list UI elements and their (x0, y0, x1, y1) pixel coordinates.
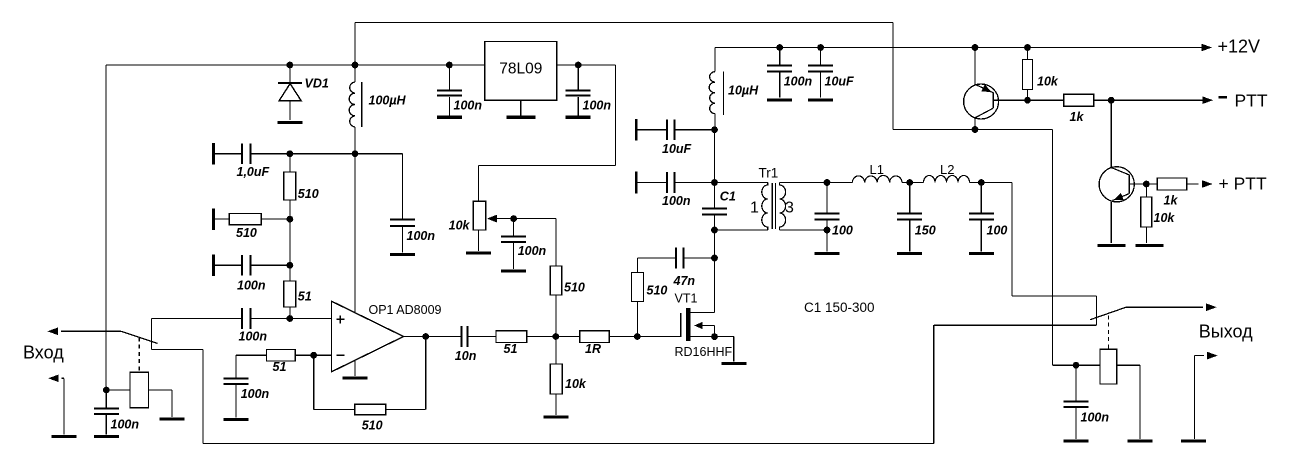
resistor 510 vertical (row1-row2) (289, 154, 291, 172)
ground relay K2 (1128, 439, 1153, 442)
node gate (634, 333, 641, 340)
svg-text:510: 510 (298, 187, 319, 201)
transistor Q1 (PNP) (974, 48, 976, 85)
svg-text:100n: 100n (583, 99, 612, 113)
node input cap of 78L09 (446, 62, 453, 69)
svg-text:510: 510 (362, 419, 383, 433)
ground pin of 78L09 (520, 100, 522, 115)
capacitor 100n (row4, +input) (151, 318, 242, 320)
capacitor 100n (drain supply) (779, 48, 781, 65)
node feedback junction (310, 352, 317, 359)
ground below 10k divider (544, 415, 569, 418)
terminal stub row2 (212, 208, 215, 230)
svg-text:L1: L1 (870, 162, 884, 177)
svg-text:150: 150 (915, 224, 936, 238)
wire output arrow line (1126, 306, 1203, 308)
svg-text:100: 100 (987, 224, 1008, 238)
svg-text:510: 510 (564, 281, 585, 295)
wire +12V rail (y=47.5) (715, 47, 1203, 49)
svg-text:51: 51 (504, 342, 518, 356)
relay switch blade (input) (121, 331, 157, 343)
transformer Tr1 primary winding (715, 182, 768, 184)
svg-text:100n: 100n (518, 244, 547, 258)
svg-text:51: 51 (298, 290, 312, 304)
node Q1 emitter (972, 44, 979, 51)
svg-text:100n: 100n (662, 194, 691, 208)
node row1 divider (287, 150, 294, 157)
resistor 51 (driver) (496, 331, 527, 343)
svg-text:510: 510 (647, 284, 668, 298)
wire -PTT line (1094, 99, 1203, 101)
wire top rail (y=22.5) from 100uH node to Q1 collector drop (355, 22, 893, 24)
input arrow to connector (47, 328, 58, 336)
wire bottom loop (203, 443, 934, 445)
capacitor 100n after 78L09 (577, 65, 579, 89)
resistor 10k (Q1 base pullup) (1027, 48, 1029, 60)
wire row2-row3 (289, 219, 291, 265)
node Tr1 primary bottom (711, 227, 718, 234)
svg-text:+ PTT: + PTT (1219, 174, 1267, 194)
wire 9V feed down to bias pot (615, 65, 617, 166)
inductor 100uH (354, 65, 356, 82)
transformer Tr1 secondary winding (780, 183, 786, 231)
svg-text:L2: L2 (940, 162, 954, 177)
capacitor 10n coupling (461, 326, 463, 347)
capacitor 47n feedback (675, 248, 677, 269)
node VD1 top (287, 62, 294, 69)
svg-text:RD16HHF: RD16HHF (675, 345, 733, 359)
svg-text:OP1 AD8009: OP1 AD8009 (369, 303, 442, 317)
ground below LPF cap2 (897, 252, 922, 255)
svg-text:3: 3 (785, 200, 794, 217)
wire 100n to node (675, 182, 715, 184)
wire +12V-in rail (y=65) (106, 64, 485, 66)
input shield stub arrow (48, 375, 59, 383)
wire 10uF to node (675, 129, 715, 131)
capacitor 100 (LPF 1) (826, 183, 828, 213)
capacitor 150 (LPF 2) (909, 183, 911, 213)
node LPF cap1 top (824, 179, 831, 186)
inductor 10uH (714, 48, 716, 72)
svg-text:100n: 100n (237, 279, 266, 293)
wire relay K1 coil right lead to ground (149, 389, 173, 391)
svg-text:100: 100 (832, 224, 853, 238)
svg-text:1k: 1k (1164, 194, 1179, 208)
wire wiper to gate 510 resistor top (555, 219, 557, 266)
node relay K1 coil / 100n (103, 387, 110, 394)
resistor 510 horizontal (row2) (213, 218, 229, 220)
ground below LPF cap1 (815, 252, 840, 255)
resistor 1k (+PTT) (1157, 178, 1187, 190)
node -PTT / Q2 collector (1108, 97, 1115, 104)
arrow -PTT (1203, 96, 1214, 104)
node drain supply cap 100n (776, 44, 783, 51)
ground below drain supply 100n (767, 98, 792, 101)
resistor 510 vertical (to wiper) (555, 295, 557, 337)
relay switch blade (output) (1090, 307, 1126, 320)
wire 10n to 51 (468, 336, 497, 338)
ground below output cap (566, 116, 591, 119)
resistor 1R (580, 331, 610, 343)
ground input shield stub (52, 435, 77, 438)
svg-text:VD1: VD1 (305, 77, 329, 91)
capacitor 100n (input relay) (105, 390, 107, 407)
wire Q1 base row (993, 99, 1064, 101)
node relay K2 coil / 100n (1073, 362, 1080, 369)
wire 1R to gate (609, 336, 680, 338)
ground below VD1 (277, 121, 302, 124)
node LPF cap2 top (906, 179, 913, 186)
inductor L1 (827, 182, 852, 184)
label minus PTT (1219, 96, 1228, 99)
node row3 (287, 262, 294, 269)
op-amp OP1 triangle (332, 301, 404, 372)
node secondary return (824, 227, 831, 234)
pot wiper arrow (497, 218, 556, 220)
arrow +PTT (1202, 180, 1213, 188)
dashed actuator link (output relay) (1107, 316, 1109, 350)
capacitor 100n (-input to gnd) (235, 355, 237, 377)
capacitor 10uF coupling (636, 129, 667, 131)
arrow output (1206, 303, 1217, 311)
wire relay K2 coil left lead (1053, 364, 1101, 366)
node Q1 base / 1k (1024, 97, 1031, 104)
wire Q2 base row (1129, 183, 1157, 185)
svg-text:100n: 100n (241, 387, 270, 401)
resistor 10k (Q2 base) (1145, 184, 1147, 197)
resistor 10k vertical (gate divider) (555, 337, 557, 365)
wire LPF output to switch (1011, 183, 1013, 297)
node row2 (287, 216, 294, 223)
node output cap of 78L09 (575, 62, 582, 69)
wire drain column x=714.5 (714, 130, 716, 208)
ground below Q2 10k (1136, 244, 1164, 247)
wire relay K2 coil right lead (1117, 364, 1140, 366)
wire relay feed right side (1052, 130, 1054, 366)
resistor 51 vertical (row3-row4) (289, 265, 291, 281)
dashed actuator link (input relay) (138, 338, 140, 373)
wire left tall vertical x=106 down to input relay (105, 65, 107, 390)
svg-text:1: 1 (750, 200, 759, 217)
ground below input cap (437, 116, 462, 119)
node driver divider (552, 333, 559, 340)
terminal stub row1 (212, 143, 215, 165)
output shield stub arrow (1195, 355, 1205, 357)
svg-text:100n: 100n (407, 229, 436, 243)
svg-text:100n: 100n (784, 75, 813, 89)
svg-text:51: 51 (273, 360, 287, 374)
svg-text:C1 150-300: C1 150-300 (804, 300, 875, 315)
transistor VT1 RD16HHF (680, 313, 682, 337)
svg-text:Выход: Выход (1199, 322, 1253, 342)
resistor 510 feedback (355, 404, 386, 414)
svg-text:1k: 1k (1070, 110, 1085, 124)
wire relay K1 coil left lead (106, 389, 130, 391)
svg-text:VT1: VT1 (675, 292, 698, 306)
node row4 +input (287, 315, 294, 322)
ground below drain supply 10uF (808, 98, 833, 101)
wire -input (314, 354, 332, 356)
node 10uH bottom (711, 126, 718, 133)
relay K2 coil box (1100, 349, 1117, 384)
ground below bias filter cap (501, 269, 526, 272)
svg-text:100µH: 100µH (369, 94, 407, 108)
terminal stub 10uF input (635, 119, 638, 141)
ground below decoupling cap (390, 253, 415, 256)
capacitor 100n (row3) (213, 264, 242, 266)
ground relay K1 (160, 417, 185, 420)
svg-text:10µH: 10µH (728, 84, 759, 98)
capacitor C1 (primary parallel) (702, 208, 727, 210)
svg-text:10uF: 10uF (825, 75, 855, 89)
node 47n drain tap (711, 255, 718, 262)
transistor Q2 (NPN) (1110, 100, 1112, 167)
capacitor 100n coupling (636, 182, 667, 184)
inductor L2 (910, 182, 924, 184)
ground below input relay cap (94, 435, 119, 438)
svg-text:47n: 47n (673, 274, 696, 288)
wire +PTT line (1187, 183, 1199, 185)
svg-text:10uF: 10uF (662, 142, 692, 156)
capacitor 100n (bias filter) (513, 219, 515, 236)
resistor 1k (-PTT) (1064, 94, 1094, 106)
resistor 51 (-input) (236, 354, 267, 356)
svg-text:1R: 1R (585, 342, 601, 356)
svg-text:10n: 10n (455, 349, 477, 363)
node Tr1 primary top (711, 179, 718, 186)
op-amp power pin wire (354, 154, 356, 313)
ground below LPF cap3 (969, 252, 994, 255)
svg-text:1,0uF: 1,0uF (237, 165, 270, 179)
node Q1 collector (972, 126, 979, 133)
node row1 opamp supply tap (352, 150, 359, 157)
svg-text:100n: 100n (111, 418, 140, 432)
svg-text:10k: 10k (449, 219, 471, 233)
ground below -input cap (224, 418, 249, 421)
svg-text:C1: C1 (720, 190, 736, 204)
ground Q2 emitter (1098, 244, 1126, 247)
capacitor 100n before 78L09 (448, 65, 450, 89)
svg-text:100n: 100n (239, 330, 268, 344)
node drain supply cap 10uF (817, 44, 824, 51)
arrow +12V (1202, 44, 1213, 52)
potentiometer 10k (bias) (473, 201, 485, 230)
ground output shield stub (1181, 439, 1206, 442)
wire 47n to drain (684, 257, 715, 259)
pot bottom to ground (478, 230, 480, 251)
node 100uH top (352, 62, 359, 69)
terminal stub 100n input (635, 172, 638, 194)
node Q2 base divider (1143, 181, 1150, 188)
wire 78L09 output (557, 64, 616, 66)
wire vertical from top rail down to +12V-in rail at x=355 (354, 23, 356, 66)
op-amp plus sign (336, 318, 344, 320)
terminal stub row3 (212, 255, 215, 277)
wire switch to bottom loop (151, 349, 203, 351)
svg-text:+12V: +12V (1218, 37, 1261, 57)
capacitor 100n (output relay) (1075, 365, 1077, 400)
svg-text:78L09: 78L09 (499, 61, 542, 78)
switch throw contact vertical (150, 319, 152, 350)
svg-text:Tr1: Tr1 (759, 166, 779, 181)
wire source to ground (715, 336, 734, 338)
zener diode VD1 (289, 65, 291, 83)
svg-text:100n: 100n (1081, 411, 1110, 425)
svg-text:10k: 10k (1154, 211, 1176, 225)
capacitor 100n decoupling (x=402.6) (402, 154, 404, 219)
svg-text:Вход: Вход (23, 343, 64, 363)
op-amp ground pin (354, 360, 356, 376)
op-amp minus sign (336, 354, 344, 356)
node 10k pullup top (1024, 44, 1031, 51)
capacitor 10uF (drain supply) (820, 48, 822, 65)
relay K1 coil box (130, 372, 149, 408)
capacitor 100 (LPF 3) (980, 183, 982, 213)
resistor 510 (gate feedback) (637, 302, 639, 337)
regulator 78L09 (485, 42, 557, 101)
capacitor 1,0uF (213, 153, 242, 155)
node op-amp output (422, 333, 429, 340)
node wiper / filter cap (510, 215, 517, 222)
wire op-amp output (404, 336, 462, 338)
transformer Tr1 core (771, 183, 773, 229)
svg-text:510: 510 (236, 226, 257, 240)
svg-text:10k: 10k (1037, 75, 1059, 89)
wire bottom loop right side (934, 324, 1097, 326)
svg-text:100n: 100n (454, 99, 483, 113)
ground below output relay cap (1064, 439, 1089, 442)
wire Q1 collector row (892, 23, 894, 130)
node LPF cap3 top (978, 179, 985, 186)
feedback wire to output (386, 409, 426, 411)
wire 51 to 1R (527, 336, 580, 338)
svg-text:10k: 10k (565, 377, 587, 391)
node VT1 source (711, 333, 718, 340)
ground VT1 source (721, 362, 746, 365)
feedback wire down (313, 355, 315, 409)
svg-text:PTT: PTT (1235, 91, 1268, 111)
